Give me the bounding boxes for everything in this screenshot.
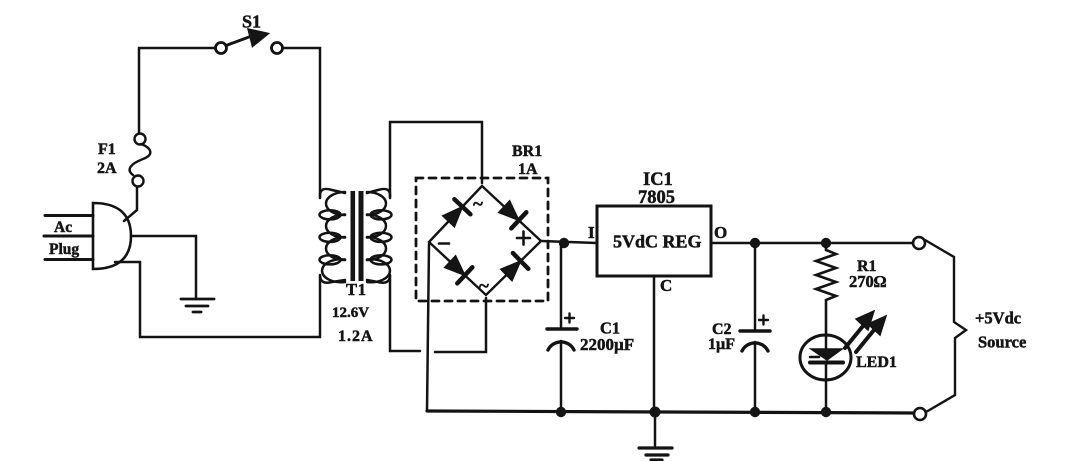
node junction C2 bottom [750,407,760,417]
bottom rail [427,411,913,413]
wire bridge minus to bottom rail [427,244,429,411]
node junction ground [650,407,661,418]
label +5Vdc Source [975,309,1026,352]
C2 plus mark [759,316,768,325]
wire switch to transformer primary top [283,48,320,198]
output terminal bottom [914,408,926,420]
svg-text:BR1: BR1 [512,143,542,160]
svg-text:T1: T1 [346,280,367,299]
LED1 [800,335,851,412]
op IC1 7805 regulator box [597,206,711,276]
svg-text:5VdC REG: 5VdC REG [613,232,702,252]
plug prong top [45,214,93,217]
diode D3 (left to bottom) [445,256,473,284]
wire to main ground [654,412,657,446]
plug prong bottom [45,258,93,261]
plug prong middle [44,235,93,238]
svg-text:2200µF: 2200µF [580,335,634,354]
output terminal top [913,237,925,249]
LED1 arrow 2 [856,316,886,352]
output brace [925,240,966,412]
svg-text:12.6V: 12.6V [332,305,369,321]
diode D1 (left to top) [443,199,471,227]
svg-text:S1: S1 [242,12,261,32]
LED1 arrow 1 [845,311,874,348]
transformer T1 primary winding [320,189,346,283]
svg-text:~: ~ [473,194,483,215]
wire secondary top to bridge top [390,122,482,198]
diode D4 (bottom to right) [501,253,529,281]
fuse F1 [130,134,151,187]
svg-text:1A: 1A [518,161,538,178]
node junction at C2 top [750,238,760,248]
resistor R1 [816,243,836,336]
node junction at C1 top [559,238,569,248]
wire crossover continuation [435,298,486,352]
wire secondary bottom to bridge bottom (with crossover break) [390,276,420,351]
svg-text:+5Vdc: +5Vdc [975,309,1021,328]
node junction at R1 top [821,238,831,248]
svg-text:IC1: IC1 [643,170,673,190]
node junction C1 bottom [556,407,566,417]
svg-text:~: ~ [479,276,489,297]
svg-text:O: O [714,223,727,242]
label R1 270ohm [849,258,887,291]
svg-text:Ac: Ac [54,219,72,236]
switch S1 [216,29,283,54]
svg-text:1µF: 1µF [708,336,735,353]
capacitor C1 [547,243,577,412]
ground (main) [639,448,672,460]
svg-text:Source: Source [978,333,1026,352]
label C2 1uF [708,321,735,353]
svg-text:C: C [660,276,672,295]
svg-text:I: I [588,223,595,242]
label C1 2200uF [580,319,634,355]
capacitor C2 [740,243,770,412]
node junction LED bottom [821,407,831,417]
label BR1 1A [512,143,542,178]
wire IC1 common pin to bottom rail [653,276,656,412]
wire fuse to plug [124,187,137,221]
wire IC1 output rail [711,242,913,245]
transformer T1 secondary winding [367,189,392,283]
wire plug bottom to transformer primary bottom [115,262,320,337]
svg-text:Plug: Plug [49,241,79,258]
svg-text:2A: 2A [97,160,117,177]
transformer T1 core [351,191,364,281]
svg-text:270Ω: 270Ω [849,272,887,291]
bridge diamond [429,186,541,295]
wire plug tip to ground [131,236,196,297]
svg-text:F1: F1 [98,141,116,158]
ground (AC side) [181,299,214,312]
AC plug body [93,203,131,269]
label IC1 7805 [638,170,675,208]
bridge BR1 dashed box [416,178,548,301]
svg-text:1.2A: 1.2A [338,328,374,345]
svg-text:LED1: LED1 [856,354,897,371]
diode D2 (top to right) [499,201,527,229]
wire bridge plus to IC1 input [541,241,597,243]
wire top rail left (fuse to switch) [139,48,215,133]
svg-text:7805: 7805 [638,188,675,208]
C1 plus mark [565,314,574,323]
label T1 12.6V 1.2A [332,280,374,345]
bridge polarity marks [473,194,489,297]
